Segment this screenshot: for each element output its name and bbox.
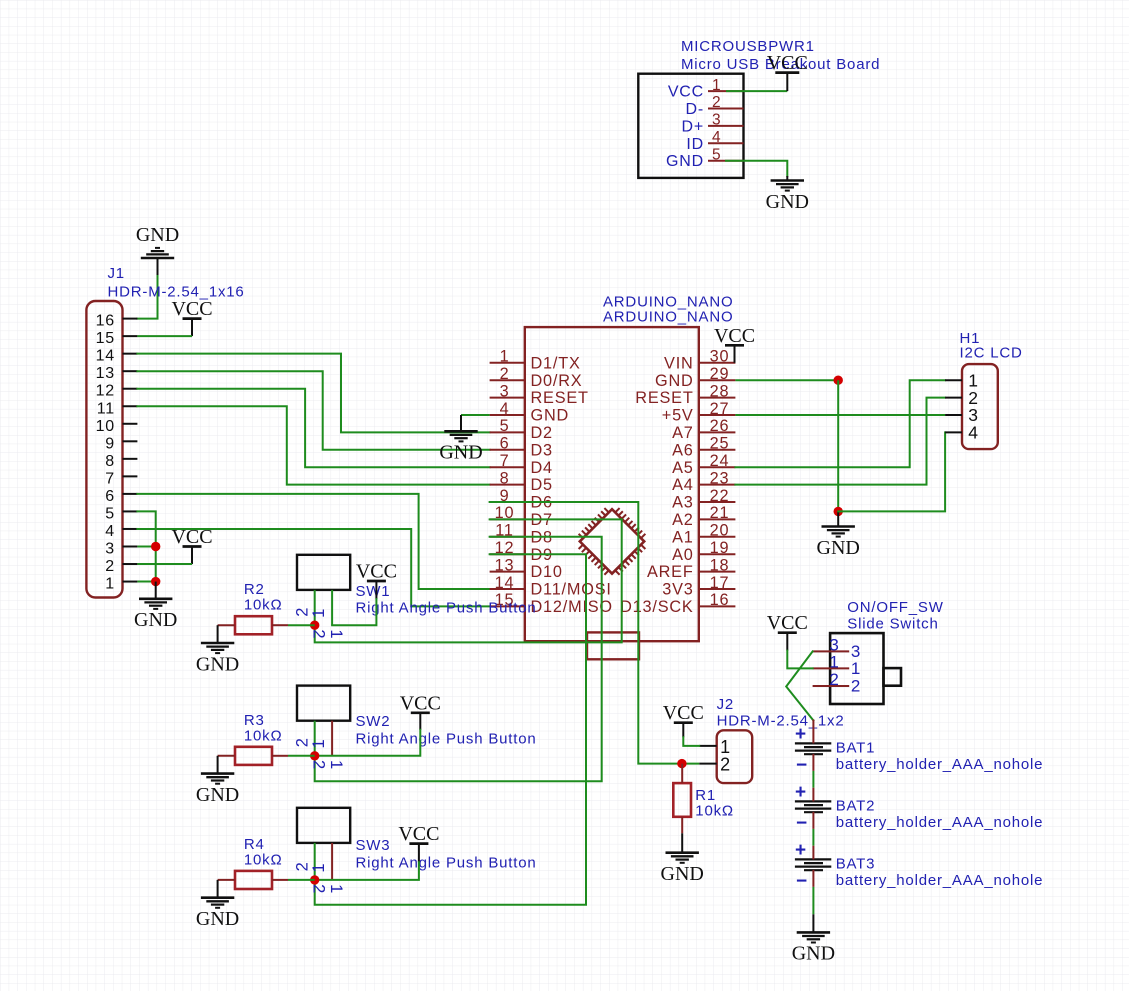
svg-text:2: 2 bbox=[712, 94, 721, 111]
battery BAT1 reference label bbox=[836, 739, 876, 756]
svg-text:ID: ID bbox=[686, 136, 704, 153]
power symbol VCC at J1 pin 2 bbox=[171, 526, 212, 564]
SW1 pin 2 (left) bbox=[314, 590, 316, 625]
svg-text:5: 5 bbox=[105, 505, 115, 522]
wire J1 pin5 to pin3 and pin1 bus bbox=[137, 511, 155, 581]
ground GND at R2 bbox=[196, 625, 239, 675]
svg-text:A3: A3 bbox=[672, 494, 694, 512]
push button SW1 body bbox=[297, 555, 350, 590]
connector H1 value label I2C LCD bbox=[960, 345, 1023, 362]
svg-text:6: 6 bbox=[105, 488, 115, 505]
ARDUINO_NANO pin 13 D10 bbox=[490, 556, 563, 581]
svg-text:2: 2 bbox=[500, 365, 510, 383]
resistor R1 pins bbox=[681, 764, 683, 834]
svg-text:21: 21 bbox=[710, 504, 730, 522]
svg-text:2: 2 bbox=[105, 558, 115, 575]
svg-text:D3: D3 bbox=[531, 441, 553, 459]
resistor R3 reference label bbox=[244, 712, 265, 729]
node junction at J1 pin1 bbox=[151, 577, 160, 586]
ARDUINO_NANO pin 10 D7 bbox=[490, 504, 553, 529]
battery BAT3 plates bbox=[795, 859, 831, 870]
SW2 pin 2 (left) bbox=[314, 721, 316, 756]
ARDUINO_NANO pin 25 A6 bbox=[672, 435, 735, 460]
resistor R2 value label 10k bbox=[244, 597, 283, 614]
svg-text:SW3: SW3 bbox=[356, 837, 391, 854]
connector J1 value label HDR-M-2.54_1x16 bbox=[108, 284, 245, 301]
svg-text:VCC: VCC bbox=[400, 692, 441, 714]
MICROUSBPWR1 pin 1 VCC bbox=[668, 77, 744, 101]
svg-text:10: 10 bbox=[96, 418, 115, 435]
connector J2 body bbox=[717, 730, 753, 783]
svg-text:2: 2 bbox=[293, 737, 311, 747]
svg-text:GND: GND bbox=[439, 442, 482, 464]
wire ARDUINO D7 pin10 to SW1 node bbox=[315, 519, 622, 642]
ARDUINO_NANO pin 21 A2 bbox=[672, 504, 735, 529]
svg-text:VCC: VCC bbox=[767, 612, 808, 634]
wire H1 pin4 to GND junction bbox=[838, 432, 945, 511]
svg-text:15: 15 bbox=[96, 330, 115, 347]
ARDUINO_NANO pin 12 D9 bbox=[490, 539, 553, 564]
wire J1 pin4 to ARDUINO D12/MISO bbox=[137, 529, 489, 606]
ground GND above J1 pin 16 (inverted) bbox=[136, 224, 179, 258]
switch ON/OFF_SW body bbox=[830, 633, 901, 704]
resistor R4 pins and wire bbox=[218, 879, 315, 881]
svg-text:10kΩ: 10kΩ bbox=[244, 851, 283, 868]
svg-text:Slide Switch: Slide Switch bbox=[847, 616, 938, 633]
svg-text:2: 2 bbox=[293, 607, 311, 617]
wire SW3 pin1 to VCC bbox=[315, 862, 419, 880]
wire VCC to ON/OFF_SW pin1 bbox=[787, 651, 812, 669]
svg-text:R1: R1 bbox=[695, 787, 716, 804]
SW1 pin 1 (right) bbox=[331, 590, 333, 625]
ARDUINO_NANO usb connector glyph at bottom bbox=[587, 632, 639, 659]
svg-text:VCC: VCC bbox=[171, 526, 212, 548]
svg-text:4: 4 bbox=[500, 400, 510, 418]
connector H1 reference label bbox=[960, 330, 981, 347]
svg-text:28: 28 bbox=[710, 382, 730, 400]
svg-text:battery_holder_AAA_nohole: battery_holder_AAA_nohole bbox=[836, 872, 1044, 889]
svg-text:Right Angle Push Button: Right Angle Push Button bbox=[356, 730, 537, 747]
resistor R1 body bbox=[673, 783, 691, 817]
battery BAT2 polarity marks bbox=[795, 782, 808, 834]
ARDUINO_NANO pin 11 D8 bbox=[490, 522, 553, 547]
ARDUINO_NANO pin 2 D0/RX bbox=[490, 365, 583, 390]
H1 pin 2 bbox=[945, 388, 979, 408]
wire J1 pin2 to VCC bbox=[137, 563, 192, 565]
wire MICROUSB GND pin 5 to ground bbox=[726, 161, 787, 176]
power symbol VCC at SW3 bbox=[398, 823, 439, 862]
ARDUINO_NANO pin 16 D13/SCK bbox=[620, 591, 735, 616]
svg-text:D-: D- bbox=[686, 101, 704, 118]
resistor R2 body bbox=[235, 616, 272, 634]
battery BAT2 reference label bbox=[836, 797, 876, 814]
power symbol VCC at micro usb bbox=[767, 52, 808, 91]
ARDUINO_NANO pin 26 A7 bbox=[672, 417, 735, 442]
svg-text:R3: R3 bbox=[244, 712, 265, 729]
svg-text:1: 1 bbox=[327, 760, 345, 770]
svg-text:1: 1 bbox=[500, 348, 510, 366]
ARDUINO_NANO pin 29 GND bbox=[655, 365, 735, 390]
svg-text:8: 8 bbox=[500, 469, 510, 487]
svg-text:22: 22 bbox=[710, 487, 730, 505]
connector J1 reference label bbox=[108, 265, 125, 282]
svg-text:12: 12 bbox=[96, 383, 115, 400]
svg-text:2: 2 bbox=[293, 861, 311, 871]
svg-text:5: 5 bbox=[712, 146, 721, 163]
svg-text:GND: GND bbox=[666, 153, 704, 170]
node junction at J1 pin3 bbox=[151, 542, 160, 551]
H1 pin 3 bbox=[945, 405, 979, 425]
svg-text:+5V: +5V bbox=[662, 407, 694, 425]
J1 pin 15 bbox=[96, 330, 138, 347]
ON/OFF_SW pin 1 bbox=[813, 653, 862, 678]
ground GND at ARDUINO pin4 bbox=[439, 415, 482, 464]
svg-text:ARDUINO_NANO: ARDUINO_NANO bbox=[603, 309, 733, 326]
node junction on GND net upper bbox=[834, 376, 843, 385]
J1 pin 9 bbox=[105, 435, 137, 452]
svg-text:3: 3 bbox=[712, 112, 721, 129]
svg-text:1: 1 bbox=[851, 659, 861, 678]
ARDUINO_NANO pin 4 GND bbox=[490, 400, 569, 425]
ARDUINO_NANO pin 23 A4 bbox=[672, 469, 735, 494]
wire SW2 pin1 to VCC bbox=[315, 730, 421, 756]
svg-text:13: 13 bbox=[96, 365, 115, 382]
svg-text:10kΩ: 10kΩ bbox=[244, 597, 283, 614]
svg-text:D10: D10 bbox=[531, 563, 563, 581]
wire J1 pin14 to ARDUINO D2 bbox=[137, 354, 489, 433]
ARDUINO_NANO pin 24 A5 bbox=[672, 452, 735, 477]
SW3 pin 2 (left) bbox=[314, 843, 316, 880]
svg-text:14: 14 bbox=[96, 348, 115, 365]
resistor R1 value label 10k bbox=[695, 803, 734, 820]
node junction at SW3 pins bbox=[310, 875, 319, 884]
svg-text:R2: R2 bbox=[244, 581, 265, 598]
svg-text:BAT3: BAT3 bbox=[836, 855, 876, 872]
svg-text:2: 2 bbox=[829, 670, 839, 689]
svg-text:4: 4 bbox=[712, 129, 721, 146]
J1 pin 2 bbox=[105, 558, 137, 575]
connector MICROUSBPWR1 reference label bbox=[681, 38, 815, 55]
svg-text:13: 13 bbox=[495, 556, 515, 574]
wire J1 pin1 stub bbox=[137, 581, 155, 583]
J1 pin 4 bbox=[105, 523, 137, 540]
wire MICROUSB VCC pin 1 to VCC bbox=[726, 90, 787, 92]
svg-text:1: 1 bbox=[327, 884, 345, 894]
svg-text:2: 2 bbox=[310, 884, 328, 894]
wire ARDUINO +5V pin27 to H1 pin3 bbox=[735, 414, 945, 416]
svg-text:R4: R4 bbox=[244, 836, 265, 853]
wire J1 pin15 to VCC bbox=[137, 335, 192, 337]
svg-text:8: 8 bbox=[105, 453, 115, 470]
svg-text:6: 6 bbox=[500, 435, 510, 453]
ARDUINO_NANO pin 5 D2 bbox=[490, 417, 553, 442]
J1 pin 12 bbox=[96, 383, 138, 400]
svg-text:GND: GND bbox=[134, 609, 177, 631]
svg-text:GND: GND bbox=[136, 224, 179, 246]
wire ON/OFF_SW pin3 to BAT1 plus (diagonal) bbox=[786, 651, 813, 720]
IC U ARDUINO_NANO reference label bbox=[603, 294, 733, 311]
node junction at J2 pin2 / R1 bbox=[677, 759, 686, 768]
svg-text:1: 1 bbox=[829, 653, 839, 672]
svg-text:BAT2: BAT2 bbox=[836, 797, 876, 814]
MICROUSBPWR1 pin 2 D- bbox=[686, 94, 744, 118]
SW2 reference label bbox=[356, 713, 391, 730]
node junction on GND net lower bbox=[834, 507, 843, 516]
svg-text:J2: J2 bbox=[717, 696, 734, 713]
power symbol VCC at J1 pin 15 bbox=[171, 298, 212, 336]
svg-text:2: 2 bbox=[310, 629, 328, 639]
wire VCC to J2 pin1 bbox=[683, 737, 699, 746]
resistor R3 body bbox=[235, 747, 272, 765]
power symbol VCC at ON/OFF_SW bbox=[767, 612, 808, 650]
wire J2 pin2 to junction bbox=[682, 763, 699, 765]
ON/OFF_SW pin 2 bbox=[813, 670, 862, 695]
svg-text:SW2: SW2 bbox=[356, 713, 391, 730]
connector J2 value label HDR-M-2.54_1x2 bbox=[717, 713, 845, 730]
J1 pin 8 bbox=[105, 453, 137, 470]
IC ARDUINO_NANO value label bbox=[603, 309, 733, 326]
J1 pin 16 bbox=[96, 313, 138, 330]
wire J1 pin16 to ground bbox=[137, 258, 157, 319]
svg-text:A7: A7 bbox=[672, 424, 694, 442]
connector J2 reference label bbox=[717, 696, 734, 713]
svg-text:D5: D5 bbox=[531, 476, 553, 494]
wire J1 pin3 stub bbox=[137, 545, 155, 547]
MICROUSBPWR1 pin 3 D+ bbox=[682, 112, 744, 136]
wire J1 pin6 to ARDUINO D11/MOSI bbox=[137, 494, 489, 589]
ARDUINO_NANO pin 3 RESET bbox=[490, 382, 589, 407]
svg-text:GND: GND bbox=[196, 908, 239, 930]
J1 pin 6 bbox=[105, 488, 137, 505]
svg-text:GND: GND bbox=[766, 191, 809, 213]
power symbol VCC at ARDUINO VIN pin30 bbox=[714, 325, 755, 363]
connector J1 body bbox=[86, 301, 122, 598]
ARDUINO_NANO pin 7 D4 bbox=[490, 452, 553, 477]
ARDUINO_NANO pin 27 +5V bbox=[662, 400, 736, 425]
J1 pin 1 bbox=[105, 576, 137, 593]
svg-text:D1/TX: D1/TX bbox=[531, 354, 581, 372]
ARDUINO_NANO pin 28 RESET bbox=[635, 382, 735, 407]
svg-text:18: 18 bbox=[710, 556, 730, 574]
svg-text:RESET: RESET bbox=[635, 389, 693, 407]
ARDUINO_NANO pin 20 A1 bbox=[672, 522, 735, 547]
svg-text:Right Angle Push Button: Right Angle Push Button bbox=[356, 600, 537, 617]
wire J1 pin12 to ARDUINO D4 bbox=[137, 389, 489, 467]
H1 pin 1 bbox=[945, 370, 979, 390]
svg-text:27: 27 bbox=[710, 400, 730, 418]
IC ARDUINO_NANO body bbox=[525, 327, 699, 641]
svg-text:VCC: VCC bbox=[714, 325, 755, 347]
svg-text:1: 1 bbox=[712, 77, 721, 94]
svg-text:+: + bbox=[795, 840, 807, 861]
svg-text:battery_holder_AAA_nohole: battery_holder_AAA_nohole bbox=[836, 756, 1044, 773]
svg-text:A6: A6 bbox=[672, 441, 694, 459]
svg-text:+: + bbox=[795, 724, 807, 745]
svg-text:GND: GND bbox=[196, 784, 239, 806]
J1 pin 5 bbox=[105, 505, 137, 522]
switch ON/OFF_SW reference label bbox=[847, 599, 943, 616]
ARDUINO_NANO pin 19 A0 bbox=[672, 539, 735, 564]
svg-text:+: + bbox=[795, 782, 807, 803]
svg-text:29: 29 bbox=[710, 365, 730, 383]
svg-text:1: 1 bbox=[105, 576, 115, 593]
ARDUINO_NANO pin 22 A3 bbox=[672, 487, 735, 512]
battery BAT2 value label bbox=[836, 814, 1044, 831]
svg-text:D2: D2 bbox=[531, 424, 553, 442]
svg-text:2: 2 bbox=[310, 760, 328, 770]
svg-text:SW1: SW1 bbox=[356, 583, 391, 600]
resistor R4 reference label bbox=[244, 836, 265, 853]
ground GND below micro usb bbox=[766, 176, 809, 213]
svg-text:2: 2 bbox=[851, 677, 861, 696]
svg-text:D0/RX: D0/RX bbox=[531, 372, 583, 390]
ARDUINO_NANO pin 14 D11/MOSI bbox=[490, 574, 612, 599]
ARDUINO_NANO pin 6 D3 bbox=[490, 435, 553, 460]
SW1 value label Right Angle Push Button bbox=[356, 600, 537, 617]
resistor R1 reference label bbox=[695, 787, 716, 804]
J1 pin 13 bbox=[96, 365, 138, 382]
svg-text:30: 30 bbox=[710, 348, 730, 366]
wire ARDUINO A4 pin23 to H1 pin2 bbox=[735, 398, 945, 485]
svg-text:−: − bbox=[796, 813, 808, 834]
power symbol VCC at J2 bbox=[663, 702, 704, 737]
SW3 pin 1 (right) bbox=[331, 843, 333, 880]
svg-text:BAT1: BAT1 bbox=[836, 739, 876, 756]
battery BAT1 value label bbox=[836, 756, 1044, 773]
svg-text:RESET: RESET bbox=[531, 389, 589, 407]
resistor R3 value label 10k bbox=[244, 727, 283, 744]
svg-text:17: 17 bbox=[710, 574, 730, 592]
IC chip glyph (rotated QFP) inside ARDUINO_NANO bbox=[579, 508, 646, 575]
wire GND net vertical bbox=[837, 380, 839, 511]
H1 pin 4 bbox=[945, 423, 979, 443]
svg-text:Right Angle Push Button: Right Angle Push Button bbox=[356, 854, 537, 871]
svg-text:GND: GND bbox=[817, 537, 860, 559]
svg-text:7: 7 bbox=[105, 470, 115, 487]
svg-text:VCC: VCC bbox=[356, 561, 397, 583]
resistor R2 pins and wire bbox=[218, 624, 315, 626]
switch ON/OFF_SW value label Slide Switch bbox=[847, 616, 938, 633]
wire SW1 pin1 to VCC bbox=[332, 599, 376, 625]
resistor R4 body bbox=[235, 871, 272, 889]
SW3 reference label bbox=[356, 837, 391, 854]
SW2 value label Right Angle Push Button bbox=[356, 730, 537, 747]
J1 pin 7 bbox=[105, 470, 137, 487]
MICROUSBPWR1 pin 5 GND bbox=[666, 146, 743, 170]
ARDUINO_NANO pin 17 3V3 bbox=[662, 574, 735, 599]
svg-text:−: − bbox=[796, 871, 808, 892]
svg-text:19: 19 bbox=[710, 539, 730, 557]
wire ARDUINO D6 pin9 to J2 pin2 node bbox=[490, 502, 682, 764]
SW1 pin number labels bbox=[293, 607, 345, 640]
node junction at SW1 pins bbox=[310, 621, 319, 630]
wire ARDUINO D8 pin11 to SW2 node bbox=[315, 537, 602, 782]
svg-text:HDR-M-2.54_1x2: HDR-M-2.54_1x2 bbox=[717, 713, 845, 730]
svg-text:A1: A1 bbox=[672, 528, 694, 546]
SW2 pin number labels bbox=[293, 737, 345, 770]
push button SW2 body bbox=[297, 686, 350, 721]
svg-text:10kΩ: 10kΩ bbox=[244, 727, 283, 744]
svg-text:D+: D+ bbox=[682, 118, 705, 135]
resistor R4 value label 10k bbox=[244, 851, 283, 868]
svg-text:D12/MISO: D12/MISO bbox=[531, 598, 613, 616]
wire J1 pin11 to ARDUINO D5 bbox=[137, 406, 489, 484]
svg-text:battery_holder_AAA_nohole: battery_holder_AAA_nohole bbox=[836, 814, 1044, 831]
power symbol VCC at SW2 bbox=[400, 692, 441, 730]
svg-text:4: 4 bbox=[968, 423, 979, 443]
ARDUINO_NANO pin 1 D1/TX bbox=[490, 348, 581, 373]
ARDUINO_NANO pin 18 AREF bbox=[647, 556, 735, 581]
svg-text:3: 3 bbox=[105, 540, 115, 557]
ground GND at R3 bbox=[196, 756, 239, 806]
svg-text:GND: GND bbox=[661, 863, 704, 885]
svg-text:GND: GND bbox=[196, 653, 239, 675]
svg-text:VCC: VCC bbox=[398, 823, 439, 845]
battery BAT3 reference label bbox=[836, 855, 876, 872]
SW3 pin number labels bbox=[293, 861, 345, 894]
svg-text:A4: A4 bbox=[672, 476, 694, 494]
power symbol VCC at SW1 bbox=[356, 561, 397, 600]
svg-text:25: 25 bbox=[710, 435, 730, 453]
J1 pin 10 bbox=[96, 418, 138, 435]
svg-text:26: 26 bbox=[710, 417, 730, 435]
svg-text:VIN: VIN bbox=[664, 354, 694, 372]
J1 pin 14 bbox=[96, 348, 138, 365]
battery BAT1 polarity marks bbox=[795, 724, 808, 776]
resistor R2 reference label bbox=[244, 581, 265, 598]
svg-text:9: 9 bbox=[105, 435, 115, 452]
connector MICROUSBPWR1 value label Micro USB Breakout Board bbox=[681, 56, 880, 73]
svg-text:A0: A0 bbox=[672, 546, 694, 564]
ground GND below J1 pin1 bbox=[134, 582, 177, 632]
svg-text:−: − bbox=[796, 755, 808, 776]
svg-text:ON/OFF_SW: ON/OFF_SW bbox=[847, 599, 943, 616]
svg-text:VCC: VCC bbox=[663, 702, 704, 724]
battery BAT2 plates bbox=[795, 801, 831, 812]
svg-text:GND: GND bbox=[531, 407, 570, 425]
svg-text:1: 1 bbox=[310, 608, 328, 618]
ARDUINO_NANO pin 15 D12/MISO bbox=[490, 591, 613, 616]
svg-text:VCC: VCC bbox=[668, 84, 704, 101]
wire J1 pin13 to ARDUINO D3 bbox=[137, 371, 489, 450]
svg-text:2: 2 bbox=[720, 755, 731, 775]
battery BAT3 value label bbox=[836, 872, 1044, 889]
svg-text:5: 5 bbox=[500, 417, 510, 435]
svg-text:3V3: 3V3 bbox=[662, 581, 693, 599]
wire ARDUINO GND pin4 to ground bbox=[461, 414, 490, 416]
ARDUINO_NANO pin 9 D6 bbox=[490, 487, 553, 512]
connector MICROUSBPWR1 body bbox=[638, 74, 743, 178]
J2 pin 1 bbox=[699, 737, 731, 757]
push button SW3 body bbox=[297, 808, 350, 843]
svg-text:20: 20 bbox=[710, 522, 730, 540]
svg-text:J1: J1 bbox=[108, 265, 125, 282]
svg-text:I2C LCD: I2C LCD bbox=[960, 345, 1023, 362]
ARDUINO_NANO pin 8 D5 bbox=[490, 469, 553, 494]
svg-text:VCC: VCC bbox=[171, 298, 212, 320]
svg-text:3: 3 bbox=[500, 382, 510, 400]
svg-text:4: 4 bbox=[105, 523, 115, 540]
svg-text:16: 16 bbox=[96, 313, 115, 330]
ON/OFF_SW pin 3 bbox=[813, 636, 862, 661]
svg-text:24: 24 bbox=[710, 452, 730, 470]
ground GND below BAT3 bbox=[792, 914, 835, 964]
svg-text:7: 7 bbox=[500, 452, 510, 470]
J1 pin 11 bbox=[97, 400, 138, 417]
svg-text:14: 14 bbox=[495, 574, 515, 592]
svg-text:D11/MOSI: D11/MOSI bbox=[531, 581, 612, 599]
svg-text:16: 16 bbox=[710, 591, 730, 609]
